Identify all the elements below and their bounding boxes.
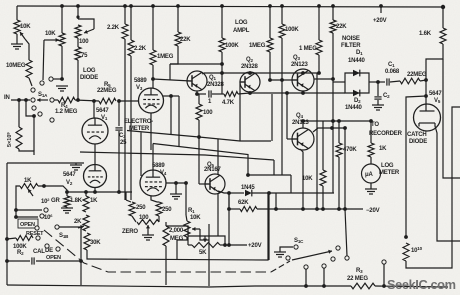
label 1MEG #3 — [299, 46, 317, 52]
wire 10MEG to S1A contact — [29, 78, 32, 86]
ground S1C — [274, 247, 293, 257]
node Q4 collector — [301, 119, 305, 123]
resistor 22MEG coupling — [400, 78, 420, 84]
resistor 1.6K — [440, 7, 446, 44]
box OPEN — [18, 219, 38, 228]
label cap 1 — [208, 99, 212, 105]
pot 2K — [78, 215, 89, 231]
node top-bus junction x=62 — [60, 4, 64, 8]
label +20V top — [373, 18, 387, 24]
transistor Q1 2N328 — [187, 71, 207, 91]
wire lower deck down — [33, 116, 35, 151]
wire x229 y193-209 — [228, 193, 230, 209]
wire x317 rail — [316, 73, 318, 209]
wire 22MEG to node — [420, 80, 426, 81]
node C1 out — [424, 78, 428, 82]
node y192 x67 — [65, 190, 69, 194]
wire V5 stub — [425, 96, 427, 104]
node y73 x319 — [317, 71, 321, 75]
wiper S1C — [292, 250, 332, 260]
wire pot wiper to 10MEG — [25, 39, 29, 60]
wire 1K to meter — [370, 157, 372, 164]
resistor 100 (Q1 emitter) — [196, 94, 202, 139]
wire 2.2K#2 down — [130, 56, 132, 200]
label Q3 — [293, 55, 300, 61]
capacitor C1 0.068 — [387, 78, 389, 85]
contact R2 — [36, 236, 40, 240]
wire x81 down — [80, 261, 82, 285]
transistor Q3 2N123 — [292, 69, 314, 91]
wire y192 — [66, 191, 132, 193]
node y175 x248 — [246, 173, 250, 177]
wire y217 row — [16, 216, 38, 218]
label 5647 V1 — [96, 108, 109, 121]
wire collector rail y73 — [204, 72, 319, 74]
contact 10^2 circle — [44, 208, 48, 212]
label 2000 — [169, 228, 184, 234]
label S1B — [59, 233, 69, 239]
node 10^10 top — [404, 235, 408, 239]
label 100 Q1 — [203, 110, 213, 116]
label 100K #2 — [285, 27, 299, 33]
label 2N123 Q4 — [292, 120, 310, 126]
label Q1 — [209, 75, 216, 81]
capacitor R2 line — [7, 257, 81, 264]
label Q4 — [296, 113, 303, 119]
label 250 b — [162, 207, 172, 213]
label R4 — [61, 103, 68, 109]
wire Q1 collector up — [202, 73, 204, 74]
label 5K — [199, 250, 207, 256]
wire 10K to ground — [16, 34, 18, 44]
wire R1 top — [186, 215, 187, 221]
wire 470K bottom — [338, 157, 340, 209]
wire node to V5 — [425, 80, 427, 96]
wire 1MEG col 2 — [269, 6, 271, 38]
wire R5 to V3 grid — [119, 100, 139, 102]
node top-bus junction x=270 — [268, 4, 272, 8]
label D1 — [356, 50, 363, 56]
wire corner x170 down — [169, 64, 171, 80]
wire meter to ground — [370, 183, 372, 189]
pot 5K loop top — [188, 236, 225, 245]
node y210 — [14, 208, 18, 212]
label 1.8K — [70, 198, 83, 204]
switch S1A upper contacts — [31, 77, 53, 92]
wire y210 row — [16, 209, 42, 211]
wire to +20V — [225, 244, 247, 246]
wire S1C h down — [383, 264, 385, 286]
wire 2.2K col b — [130, 6, 132, 40]
wire 10^10 bottom loop — [406, 107, 460, 268]
label 10^6 — [44, 213, 53, 221]
label LOG METER — [379, 163, 400, 176]
wire V4 plate right — [166, 182, 186, 184]
node top-bus junction x=333 — [331, 4, 335, 8]
wire Q5 base col — [199, 137, 209, 184]
label S1C — [294, 238, 304, 244]
resistor 5K — [192, 243, 220, 248]
resistor 1K v2 cathode — [83, 192, 89, 212]
wiper 5K — [203, 236, 207, 242]
node x81 y261 — [79, 259, 83, 263]
wire 100K col 2 — [281, 6, 283, 24]
wire x229 drop — [228, 193, 230, 245]
node 10K bottom — [321, 207, 325, 211]
node y79 x333 — [331, 77, 335, 81]
resistor 62K — [240, 207, 257, 212]
wire 100K2 down long — [281, 38, 283, 175]
label 100K R2 — [13, 244, 27, 250]
wire R4 to R5 — [75, 100, 99, 101]
label 4.7K — [222, 100, 235, 106]
node log-diode tap — [76, 98, 80, 102]
wire y64 to 100K column — [170, 63, 222, 65]
contact lower a — [32, 106, 36, 110]
resistor R5 22MEG — [99, 98, 116, 104]
wire 62K lead — [229, 208, 240, 210]
resistor 1MEG #1 — [150, 50, 156, 65]
resistor 30K — [84, 233, 90, 250]
label ELECTRO-METER — [124, 119, 153, 132]
label 10^2 — [41, 197, 50, 205]
label 2N167 — [204, 167, 222, 173]
wire L1 feedback — [127, 131, 271, 142]
label 30K — [90, 240, 101, 246]
node feedback loop top — [76, 15, 79, 18]
node Q4 emitter bottom — [301, 207, 305, 211]
label S1A — [38, 92, 48, 98]
label C1 — [388, 62, 395, 68]
node V3 plate out — [169, 94, 173, 98]
wire 22K col 2 — [332, 6, 334, 20]
node y192 x86 — [84, 190, 88, 194]
wire top +20V supply bus — [17, 6, 443, 7]
wire Q5 collector — [217, 139, 219, 176]
dashed link to S1C — [271, 261, 290, 272]
label 1.2MEG — [55, 109, 78, 115]
pot R1 10K — [184, 221, 200, 237]
wire filter to C1 — [369, 81, 385, 83]
switch S1A contact 2 — [50, 98, 54, 102]
watermark — [387, 277, 456, 292]
node V2 cathode — [93, 190, 97, 194]
transistor Q2 2N328 — [240, 72, 260, 92]
label 2K — [74, 219, 82, 225]
resistor 250 b — [156, 202, 162, 222]
wire y121 — [303, 120, 371, 122]
label CATCH DIODE — [407, 132, 427, 145]
wire Q2 base box — [240, 82, 245, 141]
ground V2 line — [70, 163, 82, 170]
label 22MEG R5 — [97, 88, 117, 94]
label +20V mid — [248, 243, 262, 249]
wire Q4 base drop — [287, 93, 297, 139]
wire 22K down corner — [170, 46, 178, 64]
wire x25 drop — [26, 100, 34, 116]
dashed wiper link — [44, 230, 271, 272]
label Q5 — [207, 162, 214, 168]
wire x171 drop — [170, 96, 172, 135]
wire 1MEG col — [152, 6, 154, 50]
wire 62K row left — [228, 192, 230, 194]
node left rail a — [5, 237, 9, 241]
label GR — [51, 198, 60, 204]
label 1K pot — [24, 178, 32, 184]
resistor 4.7K — [224, 92, 238, 97]
label LOG DIODE — [80, 68, 98, 81]
capacitor C2 — [374, 82, 381, 105]
wire L2 y152 — [80, 152, 274, 160]
label 5647 V2 — [63, 172, 76, 186]
label 10^10 — [411, 246, 423, 254]
node x317 y209 — [315, 207, 319, 211]
resistor R3 22MEG — [351, 283, 375, 289]
node 470K bottom — [337, 207, 341, 211]
wire Q4 collector up — [302, 121, 304, 128]
wire right bracket — [443, 59, 460, 178]
label 10K #2 — [45, 31, 56, 37]
label 22K #1 — [180, 37, 191, 43]
wire y163 left — [7, 162, 84, 164]
node 100K col / y73 — [220, 71, 224, 75]
node y192 x119 — [117, 190, 121, 194]
label OPEN 2 — [46, 255, 61, 261]
node R5 right junction — [117, 99, 121, 103]
wire Q5 emitter — [218, 191, 229, 193]
wire x291 link — [290, 175, 292, 193]
node 470K top — [337, 119, 341, 123]
wire V5 cathode down — [435, 126, 460, 241]
wire S1C c down — [305, 269, 307, 286]
node V5 top — [424, 94, 428, 98]
wire Q1 emitter down — [196, 91, 198, 94]
contact lower b — [38, 112, 42, 116]
label 1MEG #2 — [249, 43, 266, 49]
label 2N328 Q2 — [241, 64, 259, 70]
label 75 — [81, 53, 88, 59]
contact S1C c — [304, 265, 308, 269]
label 5889 V4 — [152, 163, 167, 176]
wire x179 drop — [178, 96, 180, 146]
transistor Q4 2N123 — [292, 128, 314, 150]
wire 100K col — [221, 6, 223, 38]
label MEG — [170, 236, 184, 242]
node Q1 emitter — [195, 92, 199, 96]
resistor 1.8K — [64, 192, 70, 207]
wire x347 link — [345, 209, 347, 256]
node lower deck — [32, 114, 36, 118]
wire 1N45 right — [252, 192, 334, 194]
label 100 zero — [139, 215, 149, 221]
label Q2 — [246, 57, 253, 63]
ground S1A — [56, 86, 68, 91]
wire B1 slope — [153, 144, 248, 176]
ground V4 — [170, 194, 182, 199]
node S1A ground junction — [60, 77, 64, 81]
contact lower c — [50, 118, 54, 122]
wire 1MEG col 3 — [318, 6, 320, 40]
label 0.068 — [385, 69, 400, 75]
node top-bus junction x=153 — [151, 4, 155, 8]
label D2 — [354, 98, 361, 104]
wire bottom bus left — [7, 285, 351, 287]
resistor 10K mid — [320, 170, 326, 186]
node Q2 emitter — [248, 91, 252, 95]
contact 10^6 circle — [40, 214, 44, 218]
wire analog bus — [88, 193, 268, 260]
label -20V — [366, 208, 380, 214]
label 5889 V3 — [134, 78, 147, 91]
wire 1MEG to V3 — [152, 65, 154, 88]
node top-bus junction x=131 — [129, 4, 133, 8]
wire 5x10 corner — [19, 149, 34, 155]
resistor 22K #1 — [175, 32, 181, 46]
wire 10K to -20V rail — [322, 186, 324, 209]
wire node to left rail — [406, 96, 426, 237]
wire y175 — [248, 174, 291, 176]
wire to R4 — [54, 99, 58, 101]
wire -20V rail — [257, 208, 363, 210]
wire y94 mid — [212, 93, 224, 95]
label 2.2K #1 — [107, 25, 120, 31]
wire S1B to x81 — [59, 227, 81, 261]
node top-bus junction x=125 — [123, 4, 127, 8]
wire 2000meg col — [165, 246, 167, 285]
wire 10K2 bottom to S1A node — [61, 46, 63, 78]
label C2 — [383, 93, 390, 99]
node Q3 base feed — [268, 78, 272, 82]
node top-bus junction x=282 — [280, 4, 284, 8]
label 10MEG — [6, 63, 26, 69]
resistor 1MEG #2 — [267, 38, 273, 52]
contact S1C b — [286, 256, 290, 260]
wire V4 grid — [140, 133, 142, 177]
label 2N123 Q3 — [291, 62, 309, 68]
wire 1MEG3 down — [318, 55, 320, 73]
pot 100 ZERO — [137, 220, 159, 225]
wire x274 drop — [273, 160, 275, 175]
ground ZERO — [142, 233, 154, 240]
node C2 tap — [376, 80, 380, 84]
ground below C2 — [372, 105, 384, 110]
contact S1C f — [331, 257, 335, 261]
label 1N440 D1 — [348, 58, 366, 64]
resistor 100K #2 — [279, 24, 285, 38]
wire 2.2K#1 down — [124, 39, 126, 200]
resistor 1K meter — [368, 143, 374, 157]
transistor Q5 2N167 — [205, 174, 225, 194]
pot 100 feedback loop — [78, 19, 94, 34]
resistor 100K #1 — [219, 38, 225, 52]
wire y93 Q2-Q3 — [250, 92, 287, 94]
wire y93 to x345 — [287, 92, 345, 94]
contact cal a — [45, 244, 49, 248]
node x345 y209 — [343, 207, 347, 211]
node top-bus right corner — [441, 5, 445, 9]
wire +20V tick — [380, 6, 382, 13]
wire left rail — [6, 163, 8, 285]
resistor 100K R2 — [7, 236, 33, 241]
label CAL DE — [33, 248, 53, 255]
tube V5 catch diode — [414, 104, 441, 131]
wire x269 drop — [268, 193, 270, 260]
wiper arrow 10K #2 — [44, 38, 59, 42]
wire Q4 emitter — [300, 149, 303, 209]
node 5K out — [223, 243, 227, 247]
label 250 a — [136, 205, 146, 211]
wiper ZERO — [146, 225, 150, 233]
node IN junctions — [17, 98, 28, 102]
node V4 right b — [184, 181, 188, 185]
label 10K #1 — [20, 24, 31, 30]
wire bottom bus right — [375, 286, 448, 287]
wire y94 to Q2 — [238, 93, 250, 94]
wiper arrow S1A — [37, 98, 48, 102]
label 22K #2 — [336, 24, 347, 30]
node top-bus junction x=178 — [176, 4, 180, 8]
node left rail b — [5, 259, 9, 263]
wire log diode to IN line — [77, 60, 79, 100]
label 1.6K — [419, 31, 432, 37]
resistor 10K #2 — [59, 33, 65, 46]
capacitor C3 — [115, 101, 122, 192]
wire to ground contact — [53, 78, 62, 80]
contact S1C g — [345, 256, 349, 260]
node 1N45 left — [227, 191, 231, 195]
wire V3 cathode drop — [150, 113, 152, 150]
label C3 — [119, 133, 126, 139]
label 2N328 Q1 — [207, 82, 225, 88]
contact S1C e — [336, 246, 340, 250]
label 1K v2 — [90, 198, 98, 204]
resistor 100 (log pot) — [75, 25, 81, 38]
node Q2 top — [248, 71, 252, 75]
wire wiper to S1A contact — [43, 40, 44, 80]
label RESET — [26, 231, 44, 237]
resistor 250 a — [126, 192, 136, 222]
node y217 — [14, 215, 18, 219]
wire V4 ground stem — [175, 183, 177, 194]
wire Q1 base — [153, 79, 191, 81]
wire Q4 collector right — [313, 128, 345, 132]
node bus d — [322, 284, 326, 288]
label 100K #1 — [225, 43, 239, 49]
wire 10K col — [322, 121, 324, 170]
wire 30K to bus — [87, 250, 88, 259]
wire filter square — [345, 73, 369, 93]
wire V1 cathode to V2 — [94, 144, 96, 165]
node V1 grid tap — [92, 99, 96, 103]
label TO RECORDER — [369, 122, 403, 137]
wire S1C d down — [323, 268, 325, 286]
label ZERO — [122, 229, 138, 235]
wire x209 — [208, 224, 210, 286]
resistor 22K #2 — [330, 20, 336, 33]
label 1MEG #1 — [157, 54, 174, 60]
tube V1 — [82, 118, 108, 144]
label 1N440 D2 — [345, 105, 363, 111]
label IN — [4, 95, 10, 101]
label 5647 V5 — [429, 91, 442, 104]
tube V3 electrometer — [139, 88, 164, 113]
tube V2 — [84, 165, 107, 188]
wire y94 left — [197, 93, 206, 95]
node y128 — [330, 126, 347, 130]
wire x276 link — [275, 193, 277, 209]
resistor 2.2K #1 — [122, 24, 128, 39]
node bus h — [382, 284, 386, 288]
